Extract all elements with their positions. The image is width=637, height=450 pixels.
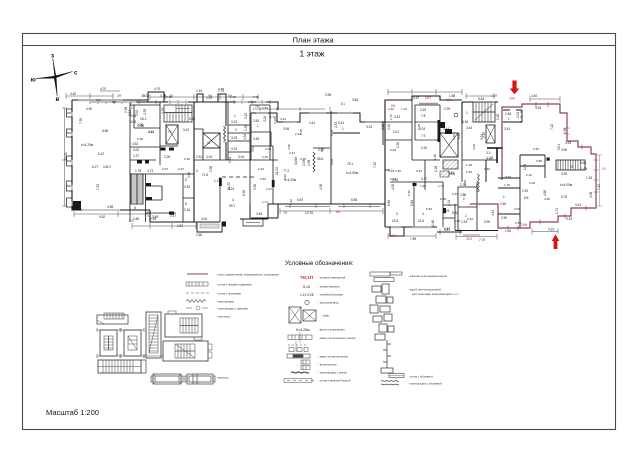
svg-text:h=4.25м: h=4.25м [81,143,93,147]
legend item: wall with top beam [284,379,314,383]
svg-text:1: 1 [193,109,195,113]
wire left vertical dim line [62,108,67,206]
legend middle column [284,275,355,383]
svg-text:3.92: 3.92 [283,174,287,180]
wire top dimension line [66,91,120,99]
svg-text:1: 1 [131,106,133,110]
svg-text:3.17: 3.17 [421,177,427,181]
svg-text:3.03: 3.03 [265,147,271,151]
svg-text:7.52: 7.52 [96,184,100,190]
legend item: AC baskets symbol [370,272,402,282]
wire window ticks on maroon wall [508,102,599,231]
svg-text:Масштаб 1:200: Масштаб 1:200 [46,408,99,417]
vent hatch box F [443,160,458,169]
wire lower partitions [130,165,194,222]
node corner post bottom-left [72,201,81,210]
svg-text:10.68: 10.68 [294,157,298,165]
wire porch steps under wall [243,219,263,226]
wire outer top jagged [385,96,462,122]
svg-text:10.2: 10.2 [393,130,399,134]
svg-text:1.91: 1.91 [196,89,202,93]
svg-text:2.38: 2.38 [307,160,311,166]
svg-text:3.90: 3.90 [454,219,460,223]
wire top wall [462,102,498,124]
svg-text:3.03: 3.03 [231,136,237,140]
refuse chute circle and duct marks blockF [440,113,458,134]
svg-text:2.25: 2.25 [395,169,401,173]
svg-text:4.26: 4.26 [319,184,323,190]
stair core tower A [97,328,120,358]
svg-text:в: в [56,96,60,103]
svg-text:- номер комнаты: - номер комнаты [318,285,340,289]
wire middle partitions [385,180,414,227]
svg-text:6.40: 6.40 [407,190,411,196]
wire bottom dim line wing [280,208,383,214]
svg-text:h=4.05м: h=4.05м [560,183,572,187]
svg-text:10Н: 10Н [390,234,397,238]
svg-text:3.45: 3.45 [152,215,158,219]
red room number labels around plan [117,94,606,241]
wire bottom dim line core [132,223,196,229]
compass rose [31,53,79,104]
svg-text:71.5: 71.5 [202,173,208,177]
legend item: partition with window [291,372,309,373]
svg-text:3.04: 3.04 [238,155,244,159]
svg-text:8: 8 [134,206,136,210]
svg-text:3.96: 3.96 [253,95,259,99]
legend item: refuse chute [305,300,309,304]
svg-text:для прокладки коммуникаций и т: для прокладки коммуникаций и т.п.) [412,292,459,296]
svg-text:3.03: 3.03 [514,207,520,211]
legend item: wall with cladding [389,374,404,378]
svg-text:- стена с окнами и дверями: - стена с окнами и дверями [216,283,252,287]
svg-text:2.26: 2.26 [184,157,190,161]
svg-text:0.57: 0.57 [444,228,450,232]
wire bottom dim line blockF [388,229,460,239]
wire partitions around lift [194,129,226,160]
wire maroon boundary path [470,104,596,228]
svg-text:- лифт: - лифт [321,314,330,318]
svg-text:4.43: 4.43 [491,210,495,216]
svg-text:2.38: 2.38 [244,125,248,131]
wire room grid upper [385,100,440,160]
lift shaft 70 [166,125,178,144]
svg-text:2.35: 2.35 [137,137,143,141]
wire outer top [228,102,278,110]
svg-text:6.80: 6.80 [387,200,391,206]
svg-text:1.90: 1.90 [496,114,500,120]
svg-text:11П: 11П [425,96,432,100]
porch tray G [151,374,183,384]
svg-text:- лестницы: - лестницы [216,315,230,319]
svg-text:1.63: 1.63 [484,167,490,171]
svg-text:2: 2 [235,128,237,132]
svg-text:99.7: 99.7 [229,204,235,208]
svg-text:3.52: 3.52 [132,142,138,146]
svg-text:1П: 1П [130,219,135,223]
svg-text:3.04: 3.04 [206,155,212,159]
svg-text:7.35: 7.35 [79,118,83,124]
wire left rooms of wing [251,113,275,204]
svg-text:7Н: 7Н [255,105,260,109]
svg-text:3.04: 3.04 [201,217,207,221]
legend item: duct symbols cluster [370,284,394,373]
window bands on outer walls [72,101,480,236]
svg-text:3.66: 3.66 [352,98,358,102]
svg-text:1: 1 [508,117,510,121]
legend item: lift symbols [289,307,316,323]
svg-text:4.73: 4.73 [147,169,153,173]
wire interior partitions rooms column 16.1 [130,102,160,165]
wire bold duct walls G [487,147,503,149]
dimension lines with ticks around plan [62,89,560,240]
svg-text:3.44: 3.44 [466,126,472,130]
wire top dim line right [466,93,560,102]
svg-text:6.30: 6.30 [242,190,246,196]
svg-text:4.00: 4.00 [391,184,395,190]
svg-text:1.09: 1.09 [581,167,587,171]
stairs long double flight [131,174,143,204]
svg-text:2.59: 2.59 [463,180,467,186]
stairs hatch G two flights [473,102,495,122]
bottom-left stair core details cluster [97,311,215,384]
svg-text:7.40: 7.40 [597,184,601,190]
svg-text:7.22: 7.22 [373,162,377,168]
svg-text:5.84: 5.84 [410,200,414,206]
svg-text:2.52: 2.52 [184,185,190,189]
svg-text:3.92: 3.92 [135,110,139,116]
svg-text:В1: В1 [341,102,345,106]
title: План этажа [292,36,334,59]
svg-text:2.34: 2.34 [334,122,338,128]
svg-text:- перегородки: - перегородки [216,300,234,304]
svg-text:2.18: 2.18 [381,124,385,130]
svg-text:3.96: 3.96 [325,93,331,97]
svg-text:0.89: 0.89 [440,197,446,201]
floor plan: core block C with lift 11 [194,94,228,232]
svg-text:2.28: 2.28 [417,124,421,130]
svg-text:7.69: 7.69 [410,237,416,241]
svg-text:3.57: 3.57 [413,96,419,100]
svg-text:13.76: 13.76 [305,211,313,215]
stair block E [163,341,212,361]
wire bottom walls with bumps [385,227,462,236]
svg-text:2.64: 2.64 [187,172,191,178]
wire lift lobby walls [160,102,178,165]
svg-text:2.63: 2.63 [253,119,259,123]
svg-text:3.42: 3.42 [183,128,189,132]
floor plan: left apartment block 1Н [66,91,160,210]
svg-text:4.40: 4.40 [70,92,76,96]
svg-text:2.63: 2.63 [262,106,268,110]
svg-text:- стена с верхней балкой: - стена с верхней балкой [318,379,351,383]
svg-text:2.38: 2.38 [124,107,128,113]
svg-text:3: 3 [396,212,398,216]
wire top wall window ticks [234,100,270,104]
label texts apartment A [64,87,154,219]
lift shaft F [440,133,458,157]
svg-text:0.20: 0.20 [421,146,427,150]
svg-text:1.05: 1.05 [505,229,511,233]
scattered small dimension labels for texture [137,87,550,233]
svg-text:11: 11 [207,141,211,145]
stair tall ladder C [144,312,163,358]
svg-text:7Н;1П: 7Н;1П [300,275,313,280]
wire top dimension ticks [255,107,330,111]
svg-text:3.35: 3.35 [300,157,306,161]
svg-text:3.15: 3.15 [244,113,248,119]
svg-text:3.03: 3.03 [130,120,136,124]
svg-text:3.17: 3.17 [266,187,272,191]
svg-text:2.53: 2.53 [533,147,539,151]
svg-text:7.70: 7.70 [479,238,485,242]
svg-text:1: 1 [257,124,259,128]
red arrow bottom pointing up [552,234,560,249]
svg-text:- часть здания вновь образова: - часть здания вновь образованного помещ… [216,273,279,277]
svg-text:5.68: 5.68 [580,161,586,165]
scale label [46,408,99,417]
wire bottom dim line coreG [456,234,497,240]
wire outer walls [100,92,194,102]
svg-text:3.90: 3.90 [561,172,567,176]
svg-text:4.34: 4.34 [243,134,247,140]
svg-text:6.29: 6.29 [457,133,461,139]
svg-text:ю: ю [31,77,37,84]
svg-text:3.02: 3.02 [133,148,139,152]
svg-text:2.92: 2.92 [522,189,528,193]
svg-text:1: 1 [234,114,236,118]
svg-text:15Н: 15Н [521,223,528,227]
svg-text:2.47: 2.47 [170,214,176,218]
svg-text:3.31: 3.31 [486,157,492,161]
svg-text:8Н: 8Н [336,210,341,214]
svg-text:6.27: 6.27 [92,165,98,169]
svg-text:7Н: 7Н [283,211,288,215]
svg-text:- номера помещений: - номера помещений [318,276,346,280]
wire bottom [455,160,498,231]
svg-text:7.23: 7.23 [401,107,407,111]
svg-text:- стена с проемами: - стена с проемами [216,292,242,296]
svg-text:4.38: 4.38 [589,192,593,198]
wire outer walls left apartment [72,100,150,210]
wire room partitions upper [228,102,270,160]
svg-text:1.60: 1.60 [431,220,435,226]
svg-text:1.98: 1.98 [434,166,438,172]
svg-text:21.6: 21.6 [418,219,424,223]
wire outer top with bumps [194,94,228,102]
svg-text:- крыльцо: - крыльцо [216,376,229,380]
svg-text:2.66: 2.66 [196,233,202,237]
svg-text:3.90: 3.90 [501,216,507,220]
svg-text:5.38: 5.38 [189,117,195,121]
svg-text:- дверь остекленная с окном: - дверь остекленная с окном [318,336,355,340]
legend item: partitions zigzag [186,300,206,303]
svg-text:1.98: 1.98 [433,154,437,160]
svg-text:План этажа: План этажа [292,36,334,45]
svg-text:3.41: 3.41 [575,203,581,207]
svg-text:3.06: 3.06 [283,127,289,131]
svg-text:2.27: 2.27 [178,167,184,171]
wire bottom wall [251,204,385,218]
svg-text:2.83: 2.83 [253,137,259,141]
svg-text:5.84: 5.84 [426,207,432,211]
svg-text:6.76: 6.76 [561,195,567,199]
dim line right edge [597,155,602,206]
stairs two flights hatch [164,105,192,122]
red arrow top pointing down [510,81,520,95]
svg-text:1.03: 1.03 [523,164,527,170]
svg-text:55.6: 55.6 [317,157,323,161]
svg-text:2.59: 2.59 [482,132,486,138]
svg-text:2.27: 2.27 [133,154,139,158]
svg-text:6.12: 6.12 [98,152,104,156]
svg-text:3.24: 3.24 [228,187,234,191]
legend right column [370,272,459,386]
svg-text:2.88: 2.88 [460,193,466,197]
svg-text:У1: У1 [602,167,606,171]
wire vent zigzag wall [224,126,226,142]
svg-text:2.50: 2.50 [500,202,506,206]
legend item: metal door [287,354,310,358]
wire room partitions lower [222,160,278,218]
svg-text:7.8: 7.8 [421,114,426,118]
svg-text:1.74: 1.74 [555,208,559,214]
svg-text:3.42: 3.42 [566,217,572,221]
svg-text:4: 4 [422,212,424,216]
svg-text:4.29: 4.29 [472,144,476,150]
svg-text:2.48: 2.48 [505,112,511,116]
svg-text:8.8: 8.8 [524,196,529,200]
svg-text:2.26: 2.26 [164,155,170,159]
svg-text:3.55: 3.55 [256,212,262,216]
svg-text:2.85: 2.85 [138,124,144,128]
stairs hatch room 9 [547,158,586,171]
svg-text:12Н: 12Н [446,98,453,102]
svg-text:5.63: 5.63 [478,97,484,101]
svg-text:2Н: 2Н [117,94,122,98]
svg-text:6.86: 6.86 [351,198,357,202]
svg-text:- стена с обшивкой: - стена с обшивкой [408,375,433,379]
svg-text:2.29: 2.29 [444,107,450,111]
svg-text:5Н: 5Н [208,94,213,98]
svg-text:1: 1 [466,111,468,115]
svg-text:16.1: 16.1 [140,117,147,121]
wire outer top wall stepped [251,113,385,122]
svg-text:3.3: 3.3 [486,151,491,155]
svg-text:3.55: 3.55 [536,159,542,163]
wire bottom window details [285,204,380,208]
svg-text:- вентрешетка: - вентрешетка [318,363,337,367]
svg-text:9.50: 9.50 [253,184,257,190]
wire top dim line over core [150,94,258,100]
svg-text:2.61: 2.61 [504,127,510,131]
svg-text:5.98: 5.98 [563,128,567,134]
svg-text:2.50: 2.50 [287,144,291,150]
svg-text:2.51: 2.51 [416,169,422,173]
floor plan: right block F rooms 3-4 [385,96,462,236]
svg-text:2.70: 2.70 [389,114,393,120]
svg-text:1.74: 1.74 [438,184,444,188]
svg-text:1.11: 1.11 [214,179,220,183]
svg-text:2.07: 2.07 [162,167,168,171]
svg-text:4.40: 4.40 [531,94,537,98]
floor plan: apartment 104 maroon outline [470,102,599,231]
svg-text:4.60: 4.60 [544,197,550,201]
svg-text:2: 2 [463,197,465,201]
svg-text:- перегородка с окном: - перегородка с окном [318,371,347,375]
legend item: wall with windows and doors [186,282,208,286]
floor plan: stair core block with lift 70 [90,92,194,222]
svg-text:3.23: 3.23 [452,192,458,196]
svg-text:2.25: 2.25 [466,170,472,174]
svg-text:3.90: 3.90 [561,148,567,152]
svg-text:6.87: 6.87 [297,198,303,202]
svg-text:1 этаж: 1 этаж [299,49,324,59]
svg-text:3.41: 3.41 [309,121,315,125]
svg-text:6: 6 [185,202,187,206]
svg-text:4.60: 4.60 [543,190,547,196]
svg-text:104: 104 [509,97,515,101]
svg-text:2.29: 2.29 [529,181,535,185]
svg-text:h=4.20м: h=4.20м [296,328,310,332]
svg-text:13Н: 13Н [491,94,498,98]
floor plan: middle recessed wing 7Н 8Н [251,107,385,218]
svg-text:- дверь металлическая: - дверь металлическая [318,355,348,359]
svg-text:4.23: 4.23 [548,228,554,232]
svg-text:1.94: 1.94 [420,184,426,188]
svg-text:2.15: 2.15 [273,118,277,124]
porch tray H [185,374,215,384]
svg-text:7.12: 7.12 [550,124,554,130]
svg-text:3.42: 3.42 [394,115,400,119]
svg-text:5.36: 5.36 [462,120,468,124]
svg-text:4.70: 4.70 [154,87,160,91]
svg-text:1.30: 1.30 [586,176,592,180]
wire left wall window bumps [67,109,73,207]
svg-text:3.41: 3.41 [338,121,344,125]
svg-text:3.04: 3.04 [251,146,255,152]
svg-text:3.15: 3.15 [420,108,426,112]
svg-text:- короб (вентиляционный,: - короб (вентиляционный, [408,288,442,292]
svg-text:75.1: 75.1 [347,162,353,166]
svg-text:2.30: 2.30 [396,142,400,148]
svg-text:104.2: 104.2 [103,165,111,169]
stair flight F horizontal [98,360,146,373]
wire bottom dim line left apt [74,211,148,217]
svg-text:1.05: 1.05 [230,95,236,99]
svg-text:9.62: 9.62 [99,215,105,219]
legend item: new premises boundary line [187,273,208,275]
svg-text:3.90: 3.90 [484,220,490,224]
floor plan: apartment D rooms 1-4 [222,100,278,227]
svg-text:4.92: 4.92 [330,159,334,165]
svg-text:2.50: 2.50 [515,221,521,225]
svg-text:9.05: 9.05 [330,130,334,136]
legend item: vent grille [301,360,310,370]
stair detail: top small landing [97,313,128,324]
svg-text:1.18: 1.18 [466,163,472,167]
wire left wall [384,122,386,227]
svg-text:77.2: 77.2 [283,169,289,173]
wire corridor wall with door post [219,177,222,222]
svg-text:5.14: 5.14 [303,285,310,289]
extra partitions blockF lower for density [385,124,462,227]
floor plan: right stair core G [455,102,503,231]
svg-text:2.42: 2.42 [388,107,394,111]
svg-text:3.53: 3.53 [535,106,541,110]
svg-text:1.21·3.28: 1.21·3.28 [300,293,314,297]
svg-text:1: 1 [342,127,344,131]
